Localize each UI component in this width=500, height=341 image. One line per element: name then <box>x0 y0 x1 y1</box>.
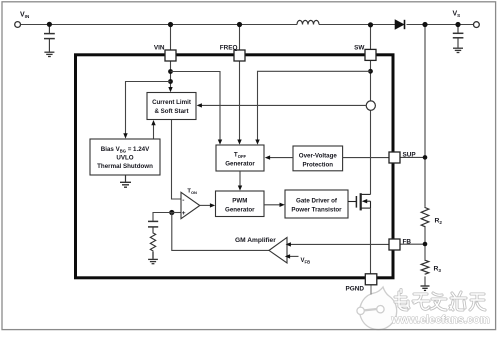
wire FB to GM <box>291 243 390 245</box>
transistor power MOSFET <box>348 193 371 210</box>
block Gate Driver of Power Transistor <box>285 190 348 218</box>
node rail VIN pin <box>168 22 173 27</box>
pin FB <box>389 239 400 250</box>
svg-text:VFB: VFB <box>301 258 311 264</box>
svg-text:Generator: Generator <box>225 161 255 168</box>
wire VIN pin drop <box>170 26 172 88</box>
svg-text:VIN: VIN <box>154 44 165 51</box>
svg-text:Over-Voltage: Over-Voltage <box>299 153 338 160</box>
svg-text:R2: R2 <box>435 218 443 226</box>
svg-text:GM Amplifier: GM Amplifier <box>235 237 276 244</box>
wire TON to PWM <box>200 204 211 206</box>
node rail cap input <box>47 22 52 27</box>
svg-text:Gate Driver of: Gate Driver of <box>296 198 338 205</box>
wire FB to divider <box>400 243 425 245</box>
node VIN branch 2 <box>168 79 173 84</box>
capacitor comp <box>148 221 158 232</box>
diode D <box>395 20 405 29</box>
capacitor input <box>44 26 55 52</box>
svg-text:Protection: Protection <box>302 161 333 168</box>
wire TOFF to PWM <box>239 171 241 186</box>
capacitor output <box>453 26 464 48</box>
svg-text:UVLO: UVLO <box>116 155 133 162</box>
svg-text:& Soft Start: & Soft Start <box>154 108 188 115</box>
wire current limit to TON minus <box>172 120 182 199</box>
wire source to PGND <box>370 208 372 274</box>
wire VFB reference stub <box>289 255 299 257</box>
svg-text:SW: SW <box>354 45 365 52</box>
ground bias <box>120 175 131 187</box>
node SUP divider <box>423 155 428 160</box>
resistor R2 <box>421 207 429 227</box>
wire VIN to TOFF <box>171 72 221 141</box>
svg-text:www.elecfans.com: www.elecfans.com <box>391 314 490 326</box>
pin SUP <box>389 152 400 163</box>
svg-text:Current Limit: Current Limit <box>152 99 191 106</box>
pin VIN <box>165 50 176 61</box>
block Current Limit & Soft Start <box>147 93 196 120</box>
node rail divider <box>422 22 427 27</box>
pin PGND <box>365 274 377 285</box>
svg-text:R3: R3 <box>434 266 442 274</box>
node rail FREQ pin <box>237 22 242 27</box>
wire PGND stub <box>370 285 372 295</box>
svg-text:-: - <box>182 197 184 204</box>
wire SW to TOFF <box>258 71 371 140</box>
node SW branch <box>368 69 373 74</box>
IC boundary box <box>76 55 394 278</box>
svg-text:TON: TON <box>187 189 197 195</box>
amplifier GM <box>269 237 287 263</box>
block PWM Generator <box>216 191 265 217</box>
svg-text:VIN: VIN <box>20 12 30 20</box>
svg-text:Power Transistor: Power Transistor <box>291 207 342 214</box>
inductor L <box>297 20 319 24</box>
svg-text:FREQ: FREQ <box>220 44 238 51</box>
node FB divider <box>423 242 428 247</box>
resistor R3 <box>421 260 429 275</box>
node VIN branch 1 <box>168 69 173 74</box>
wire VIN to Bias <box>126 82 171 134</box>
comparator TON <box>181 189 200 219</box>
wire node to comp network <box>153 213 172 221</box>
wire SUP to divider <box>400 156 425 158</box>
wire divider from VS rail <box>424 25 426 286</box>
node rail SW <box>368 22 373 27</box>
wire OVP to TOFF <box>270 157 294 159</box>
svg-text:FB: FB <box>403 239 412 246</box>
wire SW drop <box>370 26 372 194</box>
terminal VS <box>474 22 480 28</box>
wire bias to current limit (arrow up) <box>153 125 155 139</box>
wire PWM to Gate Driver <box>264 204 280 206</box>
ground output cap <box>453 48 463 52</box>
block Bias UVLO Thermal Shutdown <box>90 139 160 175</box>
terminal VIN <box>15 22 21 28</box>
watermark logo elecfans <box>357 287 397 330</box>
ground input cap <box>44 52 54 56</box>
svg-text:PWM: PWM <box>232 197 247 204</box>
svg-text:PGND: PGND <box>346 286 365 293</box>
svg-text:Bias VBG = 1.24V: Bias VBG = 1.24V <box>101 146 150 153</box>
wire top rail <box>21 24 474 26</box>
wire node to TON plus <box>172 212 181 214</box>
ground R3 <box>421 286 430 290</box>
svg-text:Generator: Generator <box>225 206 255 213</box>
watermark chinese text 电子发烧友 <box>395 290 485 311</box>
block TOFF Generator <box>216 145 264 171</box>
pin FREQ <box>234 50 245 61</box>
wire OVP to SUP <box>343 157 389 159</box>
wire node to GM output <box>172 213 269 251</box>
pin SW <box>365 49 376 60</box>
svg-text:Thermal Shutdown: Thermal Shutdown <box>97 163 153 170</box>
svg-text:+: + <box>182 210 186 217</box>
wire FREQ drop <box>239 26 241 140</box>
svg-text:SUP: SUP <box>403 152 417 159</box>
block Over-Voltage Protection <box>293 146 343 171</box>
node compensation <box>169 210 174 215</box>
svg-text:VS: VS <box>453 11 461 19</box>
node rail cap output <box>455 22 460 27</box>
wire sense to current limit <box>202 104 367 106</box>
current sense circle <box>366 101 375 110</box>
resistor comp <box>150 232 155 251</box>
ground comp <box>148 252 158 264</box>
